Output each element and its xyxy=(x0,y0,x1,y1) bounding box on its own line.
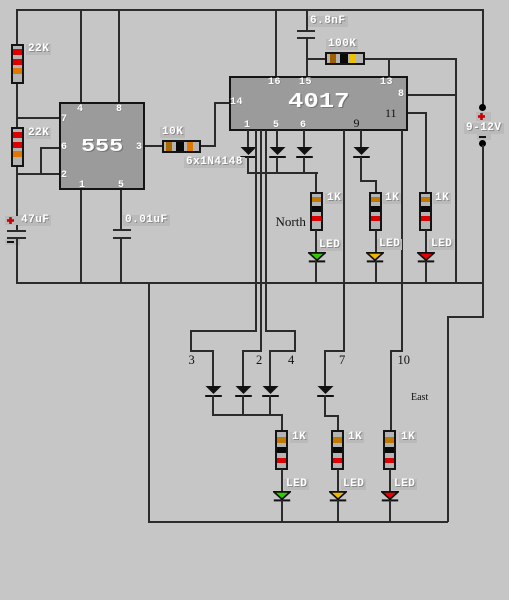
wire 4017 pin 2 down xyxy=(260,130,262,352)
wire 4017 pin 1 to D1 xyxy=(247,130,249,148)
label pin 2 xyxy=(256,353,262,367)
wire pin3 route down xyxy=(190,330,192,352)
wire join down to R5 xyxy=(315,172,317,192)
wire R8 to LED4 xyxy=(281,469,283,491)
U2 pin 9 label xyxy=(354,116,360,130)
U1 pin 1 xyxy=(79,181,86,190)
resistor R6 1K xyxy=(369,192,382,231)
wire pin2 to D6 xyxy=(242,350,244,386)
node battery + terminal xyxy=(479,104,486,111)
label pin 4 xyxy=(288,353,294,367)
label LED1 xyxy=(317,240,342,251)
C1 + mark xyxy=(5,216,20,225)
diode D5 1N4148 xyxy=(205,386,222,397)
wire down to R9 xyxy=(337,415,339,431)
wire 4017 pin 7 down xyxy=(343,130,345,352)
wire into 4017 pin 14 xyxy=(214,102,230,104)
label R8 value 1K xyxy=(290,432,308,443)
label R2 value 22K xyxy=(26,128,51,139)
wire 555 pin 6 stub xyxy=(40,147,60,149)
diode D8 1N4148 xyxy=(317,386,334,397)
U2 pin 13 xyxy=(380,78,393,87)
wire D5 cathode down xyxy=(212,395,214,416)
wire 555 pin 1 to ground bus xyxy=(80,189,82,283)
label R7 value 1K xyxy=(433,193,451,204)
label R9 value 1K xyxy=(346,432,364,443)
wire pin7 route left xyxy=(324,350,345,352)
battery label 9-12V xyxy=(464,123,504,134)
resistor R5 1K xyxy=(310,192,323,231)
wire 555 pin 2 to C1 junction xyxy=(16,173,61,175)
wire down to R6 xyxy=(375,180,377,192)
label R10 value 1K xyxy=(399,432,417,443)
label R3 value 10K xyxy=(160,127,185,138)
wire LED4 to bottom bus xyxy=(281,500,283,521)
wire pin4 route down xyxy=(294,330,296,352)
diode D2 1N4148 xyxy=(269,147,286,158)
U2 pin 11 label xyxy=(385,106,397,120)
wire 555 pin 5 to C2 xyxy=(120,189,122,230)
wire pin15 node to R4 to right rail xyxy=(306,58,456,60)
resistor R2 22K xyxy=(11,127,24,167)
wire battery - down to ground bus xyxy=(482,145,484,284)
wire C1 to ground bus xyxy=(16,239,18,283)
wire ground bus xyxy=(16,282,484,284)
label R6 value 1K xyxy=(383,193,401,204)
label R1 value 22K xyxy=(26,44,51,55)
wire LED1 to ground bus xyxy=(315,261,317,282)
capacitor C3 6.8nF xyxy=(297,30,315,32)
wire bottom ground bus xyxy=(148,521,449,523)
wire lower-left boundary xyxy=(148,282,150,523)
U2 pin 16 xyxy=(268,78,281,87)
U2 big label 4017 xyxy=(288,95,350,111)
U1 pin 7 xyxy=(61,115,68,124)
wire 4017 pin 4 down xyxy=(265,130,267,332)
wire 4017 pin 5 to D2 xyxy=(276,130,278,148)
wire 4017 pin 9 to D4 xyxy=(360,130,362,148)
U2 pin 6 xyxy=(300,121,307,130)
wire C3 to 4017 pin 15 xyxy=(306,39,308,78)
label LED2 xyxy=(377,239,402,250)
U1 big label 555 xyxy=(81,139,123,155)
wire D5-D6-D7 join xyxy=(212,414,283,416)
LED3 red North xyxy=(417,252,435,263)
wire D7 cathode down xyxy=(269,395,271,416)
wire LED6 to bottom bus xyxy=(389,500,391,521)
wire right rail to ground bus xyxy=(455,58,457,284)
U1 pin 4 xyxy=(77,105,84,114)
wire D8 cathode down xyxy=(324,395,326,417)
U1 pin 3 xyxy=(136,143,143,152)
wire R9 to LED5 xyxy=(337,469,339,491)
label LED4 xyxy=(284,479,309,490)
label C1 value 47uF xyxy=(19,215,51,226)
wire pin4 route top xyxy=(265,330,296,332)
label C3 value 6.8nF xyxy=(308,16,348,27)
label East xyxy=(411,391,428,405)
wire D2 cathode down xyxy=(276,157,278,174)
wire jog left xyxy=(447,316,484,318)
wire LED2 to ground bus xyxy=(375,261,377,282)
resistor R4 100K xyxy=(325,52,365,65)
wire to 4017 pin 13 xyxy=(388,58,390,78)
wire 4017 pin 11 out xyxy=(406,112,426,114)
wire V+ down to battery + xyxy=(482,9,484,105)
U1 pin 2 xyxy=(61,171,68,180)
wire 4017 pin 3 down xyxy=(255,130,257,332)
wire 555 pin 3 to R3 xyxy=(144,145,162,147)
op-amp: timer IC U1 555 xyxy=(59,102,145,190)
capacitor C1 47uF electrolytic xyxy=(7,230,26,232)
wire pin10 down to R10 xyxy=(390,350,392,430)
wire R6 to LED2 xyxy=(375,230,377,254)
resistor R3 10K xyxy=(162,140,201,153)
wire D1-D2-D3 join to green column xyxy=(247,172,318,174)
diode D6 1N4148 xyxy=(235,386,252,397)
wire pin3 route top xyxy=(190,330,257,332)
U2 pin 5 xyxy=(273,121,280,130)
wire R3 to riser xyxy=(200,145,215,147)
wire R5 to LED1 xyxy=(315,230,317,254)
label R4 value 100K xyxy=(326,39,358,50)
wire pin10 route left xyxy=(390,350,403,352)
wire D1 cathode down xyxy=(247,157,249,174)
wire pin3 route right xyxy=(190,350,214,352)
diode D1 1N4148 xyxy=(240,147,257,158)
wire riser to 4017 pin 14 xyxy=(214,103,216,147)
label R5 value 1K xyxy=(325,193,343,204)
label North xyxy=(276,215,306,229)
wire pin3 to D5 xyxy=(212,350,214,386)
wire 4017 pin 8 to right rail xyxy=(406,94,457,96)
wire 4017 pin 6 to D3 xyxy=(303,130,305,148)
node battery - terminal xyxy=(479,140,486,147)
wire pin7 to D8 xyxy=(324,350,326,386)
wire D4 cathode down xyxy=(360,157,362,182)
diode D3 1N4148 xyxy=(296,147,313,158)
wire R10 to LED6 xyxy=(389,469,391,491)
LED6 red East xyxy=(381,491,399,502)
wire join down to R8 xyxy=(281,414,283,431)
label pin 7 xyxy=(339,353,345,367)
battery - symbol xyxy=(477,134,491,140)
diode D7 1N4148 xyxy=(262,386,279,397)
U2 pin 15 xyxy=(299,78,312,87)
counter IC U2 4017 xyxy=(229,76,408,131)
wire D3 cathode down xyxy=(303,157,305,174)
wire V+ to C3 xyxy=(306,9,308,30)
wire V+ to 555 pin 4 xyxy=(80,9,82,104)
U1 pin 5 xyxy=(118,181,125,190)
wire pin2 route left xyxy=(242,350,262,352)
resistor R10 1K xyxy=(383,430,396,470)
wire V+ to 555 pin 8 xyxy=(118,9,120,104)
label C2 value 0.01uF xyxy=(123,215,170,226)
battery + symbol xyxy=(476,112,491,121)
wire pin 11 down to R7 xyxy=(425,112,427,192)
C1 - mark xyxy=(5,239,20,245)
wire right side down to bottom bus xyxy=(447,316,449,522)
U2 pin 14 xyxy=(230,98,243,107)
wire D4 jog right xyxy=(360,180,376,182)
wire top V+ bus xyxy=(16,9,483,11)
resistor R1 22K xyxy=(11,44,24,84)
wire left rail upper xyxy=(16,9,18,230)
wire pin6-pin2 link vertical xyxy=(40,147,42,175)
U2 pin 1 xyxy=(244,121,251,130)
label pin 10 xyxy=(398,353,411,367)
wire LED3 to ground bus xyxy=(425,261,427,282)
resistor R7 1K xyxy=(419,192,432,231)
label diode type 6x1N4148 xyxy=(184,157,245,168)
wire R7 to LED3 xyxy=(425,230,427,254)
LED4 green East xyxy=(273,491,291,502)
resistor R9 1K xyxy=(331,430,344,470)
label LED3 xyxy=(429,239,454,250)
label pin 3 xyxy=(189,353,195,367)
wire D8 jog right xyxy=(324,415,338,417)
LED5 yellow East xyxy=(329,491,347,502)
wire 555 pin 7 to divider junction xyxy=(16,117,60,119)
U1 pin 6 xyxy=(61,143,68,152)
wire pin4 to D7 xyxy=(269,350,271,386)
wire D6 cathode down xyxy=(242,395,244,416)
wire pin4 route left xyxy=(269,350,296,352)
diode D4 1N4148 xyxy=(353,147,370,158)
LED2 yellow North xyxy=(366,252,384,263)
capacitor C2 0.01uF xyxy=(113,229,131,231)
U2 pin 8 xyxy=(398,90,405,99)
LED1 green North xyxy=(308,252,326,263)
wire V+ to 4017 pin 16 xyxy=(275,9,277,78)
U1 pin 8 xyxy=(116,105,123,114)
wire ground bus right corner down xyxy=(482,282,484,317)
wire 4017 pin 10 down xyxy=(401,130,403,352)
label LED6 xyxy=(392,479,417,490)
wire LED5 to bottom bus xyxy=(337,500,339,521)
resistor R8 1K xyxy=(275,430,288,470)
label LED5 xyxy=(341,479,366,490)
wire C2 to ground bus xyxy=(120,239,122,284)
